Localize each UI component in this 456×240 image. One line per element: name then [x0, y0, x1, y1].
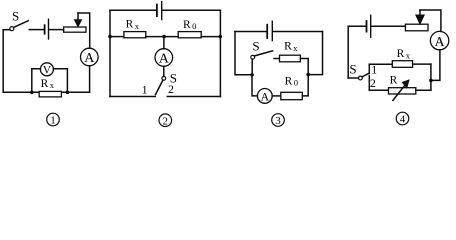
svg-text:R: R	[183, 19, 191, 31]
svg-text:A: A	[435, 35, 446, 50]
wire left node down to ammeter	[252, 75, 257, 96]
wire slider to top right corner	[78, 13, 90, 48]
wire top rail right	[273, 31, 322, 33]
wire R to branch vertical	[416, 89, 431, 91]
svg-text:A: A	[260, 89, 269, 103]
resistor Rx body	[280, 55, 301, 62]
wire left edge	[347, 26, 349, 78]
wire R0 up to right node	[302, 75, 308, 96]
rheostat slider arrow	[75, 20, 82, 27]
svg-text:x: x	[135, 21, 140, 31]
wire right edge	[219, 10, 221, 96]
wire ammeter to switch pivot	[163, 66, 165, 76]
battery short plate	[366, 21, 368, 32]
node dot	[429, 79, 433, 83]
wire contact 1 to Rx	[369, 63, 392, 65]
switch S pivot	[10, 27, 14, 31]
wire ammeter down to branch node	[431, 50, 440, 81]
svg-text:R: R	[397, 48, 405, 60]
wire contact 2 to R	[369, 89, 388, 91]
voltmeter V circle	[40, 63, 53, 76]
svg-text:0: 0	[294, 78, 298, 88]
wire top rail left	[235, 31, 266, 33]
ammeter A circle	[155, 49, 173, 67]
resistor R body	[389, 88, 416, 94]
label circled 3	[272, 114, 285, 127]
battery long plate	[161, 2, 163, 20]
rheostat body	[64, 27, 86, 32]
svg-text:x: x	[293, 43, 298, 53]
node dot right	[306, 73, 310, 77]
svg-text:4: 4	[400, 114, 406, 126]
svg-text:A: A	[159, 52, 170, 67]
label Rx	[126, 19, 140, 31]
battery long plate	[48, 19, 50, 39]
rheostat slider stem	[419, 10, 421, 15]
svg-text:R: R	[285, 75, 293, 87]
label R0	[285, 75, 298, 87]
switch S blade	[156, 80, 163, 95]
wire middle node down to ammeter	[163, 37, 165, 49]
label R0	[183, 19, 196, 31]
rheostat body	[405, 24, 428, 31]
node dot on left edge	[108, 35, 112, 39]
svg-text:R: R	[390, 75, 398, 87]
battery short plate	[44, 25, 46, 34]
svg-text:1: 1	[371, 62, 377, 76]
node dot right	[66, 91, 70, 95]
battery long plate	[271, 21, 273, 40]
label Rx	[284, 40, 298, 52]
svg-text:R: R	[284, 40, 292, 52]
svg-text:V: V	[43, 65, 52, 77]
svg-text:2: 2	[168, 82, 174, 96]
switch S blade	[362, 73, 369, 77]
label circled 1	[47, 113, 60, 126]
battery short plate	[156, 5, 158, 17]
svg-text:3: 3	[275, 115, 281, 127]
node dot left	[250, 73, 254, 77]
wire R0 to right edge	[201, 36, 220, 38]
wire Rx to branch vertical	[413, 63, 431, 65]
switch S pivot	[359, 76, 363, 80]
switch S blade	[14, 21, 29, 28]
wire top rail right	[163, 9, 221, 11]
resistor R0 body	[178, 32, 201, 38]
label Rx	[41, 78, 55, 90]
wire right edge	[308, 32, 322, 75]
variable resistor arrow	[393, 80, 409, 101]
label circled 4	[396, 112, 409, 125]
node dot on right edge	[219, 35, 223, 39]
wire left edge to switch pivot	[348, 77, 358, 79]
svg-text:R: R	[41, 78, 49, 90]
wire voltmeter branch right	[53, 69, 67, 93]
wire bottom rail left to contact 1	[110, 96, 155, 98]
svg-text:S: S	[349, 62, 356, 77]
wire ammeter to bottom rail	[89, 66, 91, 93]
battery long plate	[370, 15, 372, 37]
svg-text:2: 2	[163, 115, 169, 127]
wire left edge	[235, 32, 252, 75]
wire voltmeter branch left	[32, 69, 41, 93]
wire branch join vertical	[430, 64, 432, 90]
contact 1 stub	[368, 64, 370, 73]
svg-text:1: 1	[50, 115, 56, 127]
battery short plate	[266, 25, 268, 38]
label circled 2	[159, 114, 172, 127]
svg-text:A: A	[84, 51, 95, 66]
svg-text:S: S	[12, 8, 19, 23]
ammeter A circle	[81, 48, 99, 66]
wire contact stub to Rx	[274, 58, 280, 60]
resistor Rx body	[392, 61, 412, 68]
svg-text:x: x	[406, 51, 411, 61]
wire switch to battery	[29, 29, 43, 31]
wire slider to ammeter	[420, 10, 441, 32]
wire top rail left	[110, 9, 156, 11]
svg-text:1: 1	[142, 82, 148, 96]
wire bottom rail	[3, 91, 89, 93]
rheostat slider arrow	[416, 15, 424, 24]
label Rx	[397, 48, 411, 60]
wire left edge	[109, 10, 111, 96]
wire battery to rheostat	[372, 25, 406, 27]
wire left edge	[2, 30, 4, 93]
switch S pivot	[162, 76, 166, 80]
wire ammeter to R0	[272, 95, 281, 97]
svg-text:2: 2	[370, 76, 376, 90]
ammeter A circle	[257, 89, 272, 104]
svg-text:x: x	[50, 80, 55, 90]
node dot left	[30, 91, 34, 95]
wire riser node to switch pivot	[251, 59, 253, 75]
wire Rx to R0	[146, 36, 178, 38]
wire corner to switch	[3, 29, 10, 31]
resistor Rx body	[124, 32, 146, 38]
svg-text:S: S	[252, 39, 259, 54]
wire battery to rheostat	[49, 29, 63, 31]
switch S pivot	[251, 55, 255, 59]
svg-text:0: 0	[192, 21, 196, 31]
wire Rx down to right node	[300, 59, 308, 75]
node dot middle	[162, 35, 166, 39]
svg-text:R: R	[126, 19, 134, 31]
switch S blade	[255, 51, 273, 56]
rheostat slider stem	[77, 13, 79, 20]
wire left edge to Rx	[110, 36, 124, 38]
wire bottom rail right from contact 2	[167, 96, 220, 98]
ammeter A circle	[430, 31, 448, 49]
resistor R0 body	[281, 92, 303, 99]
wire top rail left	[348, 25, 366, 27]
resistor Rx body	[39, 91, 61, 97]
contact 2 stub	[368, 76, 370, 91]
